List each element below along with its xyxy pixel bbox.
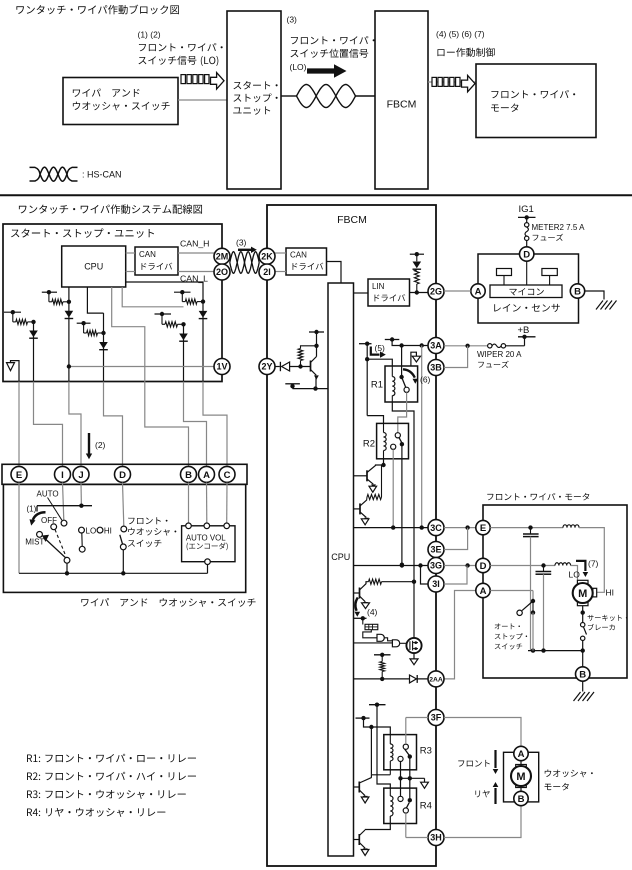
svg-text:2I: 2I [263, 267, 271, 277]
svg-text:B: B [574, 286, 581, 297]
svg-text:A: A [480, 586, 487, 597]
svg-text:A: A [518, 749, 525, 760]
svg-text:LO: LO [86, 526, 97, 535]
svg-text:(4): (4) [367, 607, 378, 617]
svg-text:E: E [16, 470, 22, 481]
svg-text:WIPER 20 A: WIPER 20 A [477, 350, 522, 359]
svg-text:R2: R2 [363, 439, 375, 450]
svg-text:CPU: CPU [331, 552, 350, 562]
svg-text:LIN: LIN [372, 282, 385, 291]
svg-text:METER2 7.5 A: METER2 7.5 A [532, 223, 586, 232]
svg-text:: HS-CAN: : HS-CAN [82, 170, 122, 180]
svg-text:(4) (5) (6) (7): (4) (5) (6) (7) [436, 29, 485, 39]
svg-text:MIST: MIST [25, 538, 44, 547]
svg-text:B: B [518, 794, 525, 805]
svg-text:B: B [185, 470, 192, 481]
svg-text:2G: 2G [430, 287, 442, 297]
svg-text:FBCM: FBCM [387, 99, 417, 111]
svg-text:B: B [579, 669, 586, 680]
svg-text:AUTO: AUTO [37, 490, 59, 499]
svg-text:(6): (6) [420, 375, 431, 385]
svg-text:D: D [523, 249, 530, 260]
svg-text:R4: R4 [420, 801, 432, 812]
svg-text:I: I [61, 470, 64, 481]
svg-text:(1) (2): (1) (2) [138, 30, 161, 40]
svg-text:(2): (2) [95, 440, 106, 450]
svg-text:FBCM: FBCM [337, 214, 367, 226]
svg-text:D: D [480, 561, 487, 572]
svg-text:3E: 3E [430, 545, 441, 555]
svg-text:(LO): (LO) [290, 62, 307, 72]
svg-text:(1): (1) [27, 505, 37, 514]
svg-text:2AA: 2AA [429, 676, 443, 683]
svg-text:R1: R1 [371, 380, 383, 391]
svg-text:CPU: CPU [84, 262, 103, 272]
svg-text:+B: +B [518, 325, 530, 336]
svg-text:3G: 3G [430, 561, 442, 571]
svg-text:C: C [224, 470, 231, 481]
svg-text:2M: 2M [216, 252, 229, 262]
svg-text:LO: LO [569, 570, 581, 580]
svg-text:3I: 3I [432, 579, 440, 589]
svg-text:1V: 1V [216, 362, 227, 372]
svg-text:2Y: 2Y [261, 362, 272, 372]
svg-text:J: J [78, 470, 83, 481]
svg-text:M: M [578, 588, 587, 600]
svg-text:2O: 2O [216, 267, 228, 277]
svg-text:R3: R3 [420, 746, 432, 757]
svg-text:E: E [480, 523, 486, 534]
svg-text:D: D [119, 470, 126, 481]
svg-text:3C: 3C [430, 523, 442, 533]
svg-text:3H: 3H [430, 833, 442, 843]
svg-text:(3): (3) [236, 238, 247, 248]
svg-text:CAN: CAN [139, 250, 156, 259]
svg-text:HI: HI [606, 588, 615, 598]
svg-text:3A: 3A [430, 341, 442, 351]
svg-text:AUTO VOL: AUTO VOL [186, 534, 226, 543]
svg-text:(7): (7) [588, 559, 599, 569]
svg-text:A: A [475, 286, 482, 297]
svg-text:(3): (3) [287, 15, 298, 25]
svg-text:CAN: CAN [290, 251, 307, 260]
svg-text:3F: 3F [431, 713, 442, 723]
svg-text:HI: HI [104, 526, 112, 535]
svg-text:(5): (5) [375, 343, 386, 353]
svg-text:A: A [203, 470, 210, 481]
svg-text:M: M [516, 771, 525, 783]
svg-text:CAN_H: CAN_H [180, 239, 209, 249]
svg-text:IG1: IG1 [519, 204, 534, 215]
svg-text:2K: 2K [261, 252, 273, 262]
svg-text:3B: 3B [430, 363, 442, 373]
